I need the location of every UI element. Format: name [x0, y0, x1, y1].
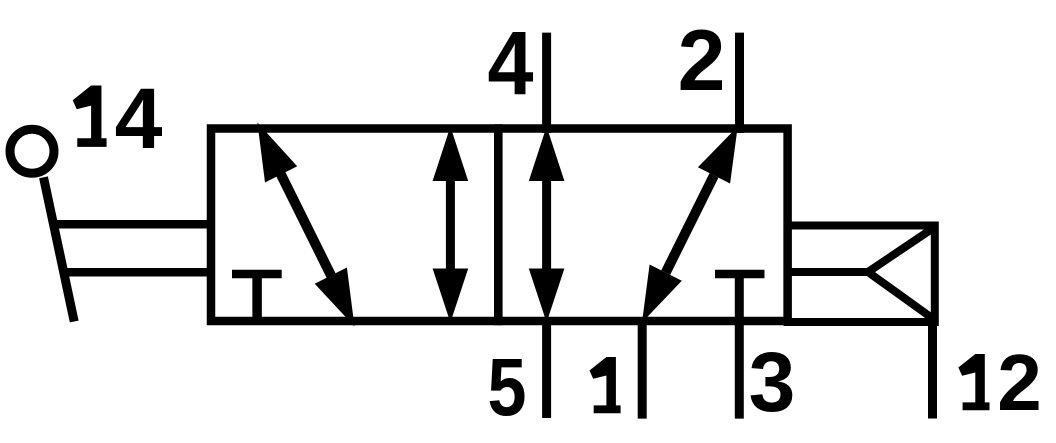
label 12 digit 1: [958, 354, 989, 410]
left box diagonal arrowhead bottom: [315, 268, 355, 327]
right box vertical flow arrow shaft: [542, 160, 551, 290]
right box diagonal arrowhead bottom: [642, 265, 682, 323]
left box blocked port T bar: [232, 270, 282, 279]
port 2 line: [735, 33, 744, 133]
port 4 line: [542, 33, 551, 133]
pilot mid line: [789, 268, 868, 276]
svg-text:2: 2: [997, 338, 1042, 427]
lever rod lower: [61, 268, 213, 277]
left box diagonal arrowhead top: [257, 123, 297, 183]
port 1 line: [638, 317, 647, 419]
valve body left box: [211, 129, 498, 322]
label 14 digit 1: [73, 86, 107, 147]
left box blocked port T stem: [252, 274, 262, 319]
left box vertical arrowhead top: [433, 127, 469, 182]
lever knob circle: [10, 129, 54, 173]
left box vertical arrowhead bottom: [433, 269, 469, 323]
svg-text:2: 2: [678, 13, 726, 109]
right box diagonal flow arrow shaft: [666, 175, 714, 272]
port 3 line with T stem: [735, 274, 744, 419]
lever arm: [44, 177, 75, 321]
port 5 line: [542, 317, 551, 418]
right box vertical arrowhead bottom: [529, 269, 565, 323]
right box diagonal arrowhead top: [698, 127, 738, 184]
pilot triangle lower side: [868, 272, 935, 320]
svg-text:4: 4: [115, 71, 163, 167]
right box blocked port T bar: [715, 270, 765, 279]
left box vertical flow arrow shaft: [446, 160, 455, 290]
svg-text:5: 5: [488, 342, 527, 433]
right box vertical arrowhead top: [529, 127, 565, 182]
svg-text:3: 3: [749, 335, 796, 429]
lever rod upper: [50, 220, 212, 229]
label 1: [590, 357, 621, 413]
left box diagonal flow arrow shaft: [278, 169, 334, 282]
pilot actuator box: [788, 226, 935, 323]
valve body right box: [498, 129, 787, 322]
port 12 line: [928, 318, 937, 419]
svg-text:4: 4: [488, 14, 534, 114]
pilot triangle upper side: [868, 227, 935, 272]
